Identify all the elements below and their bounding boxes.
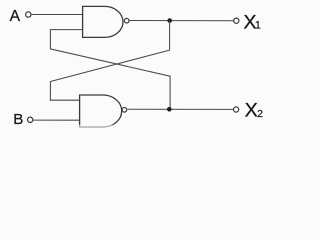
scan fade on U2 bottom edge [78, 125, 125, 132]
svg-text:A: A [10, 8, 21, 25]
NAND gate U2 inverter bubble [122, 108, 127, 113]
output terminal X1 [234, 18, 239, 23]
input terminal A [26, 12, 31, 17]
svg-text:1: 1 [255, 20, 261, 32]
feedback wire from node X1 to U2 top input [50, 21, 169, 101]
svg-text:X: X [245, 100, 258, 122]
NAND gate U1 inverter bubble [124, 18, 129, 23]
wire U2 output to X2 terminal [127, 108, 233, 110]
svg-text:2: 2 [257, 109, 263, 120]
junction dot node X2 [167, 107, 172, 112]
feedback wire from node X2 to U1 bottom input [50, 30, 170, 110]
NAND gate U2 [80, 95, 122, 127]
svg-text:B: B [13, 111, 23, 128]
junction dot node X1 [167, 18, 172, 23]
NAND gate U1 [83, 6, 123, 37]
output terminal X2 [234, 107, 239, 112]
wire B to gate U2 bottom input [34, 119, 81, 121]
wire U1 output to X1 terminal [130, 20, 234, 22]
input terminal B [28, 117, 33, 122]
wire A to gate U1 top input [32, 14, 83, 16]
